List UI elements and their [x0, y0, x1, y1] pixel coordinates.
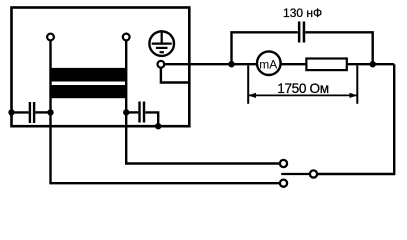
svg-text:1750 Ом: 1750 Ом — [277, 81, 329, 96]
svg-text:130 нФ: 130 нФ — [283, 6, 322, 20]
svg-text:mA: mA — [259, 57, 277, 71]
